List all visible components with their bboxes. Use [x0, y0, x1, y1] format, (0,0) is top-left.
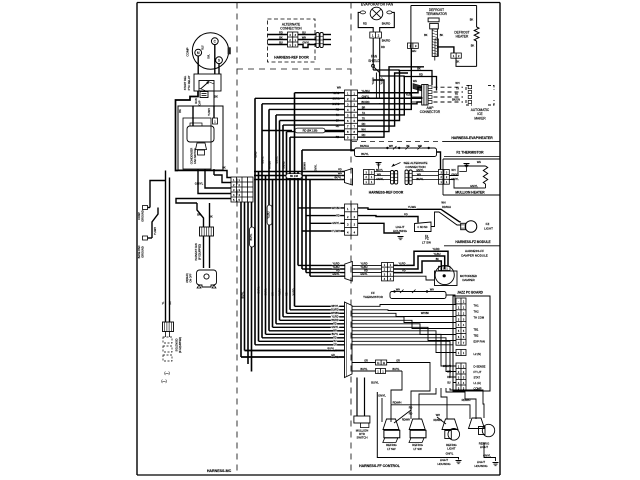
svg-text:TA: TA — [456, 88, 459, 91]
svg-text:YL/WH: YL/WH — [408, 205, 416, 209]
svg-text:RD/WH: RD/WH — [393, 401, 402, 405]
svg-text:BK/WH: BK/WH — [304, 162, 307, 170]
F2 door switch — [415, 201, 461, 238]
see alternate connection note — [392, 161, 428, 169]
svg-text:RD: RD — [402, 270, 406, 273]
svg-text:WH: WH — [361, 127, 365, 131]
damper bundle wires from verticals — [298, 262, 345, 276]
svg-text:GN/YL: GN/YL — [276, 156, 279, 164]
svg-text:HARNESS-FF CONTROL: HARNESS-FF CONTROL — [359, 464, 401, 468]
wires from bundle to housing block — [298, 208, 345, 231]
light housing label + ground — [393, 225, 408, 240]
refrig lt sw unit 1 — [383, 419, 400, 451]
svg-text:SOLENOID: SOLENOID — [176, 338, 179, 351]
mullion heater wiring — [449, 160, 485, 188]
jazz strip left labels — [443, 365, 452, 385]
svg-text:BK: BK — [279, 35, 283, 39]
svg-text:SWITCH: SWITCH — [356, 436, 367, 440]
fan shield — [368, 55, 383, 100]
wire block bottom to F2 rail — [351, 140, 355, 151]
wires right of barrel — [323, 35, 331, 45]
defrost heater resistor — [454, 27, 479, 66]
svg-text:DAMPER: DAMPER — [462, 278, 474, 282]
svg-text:GR: GR — [364, 359, 368, 362]
svg-text:WH: WH — [272, 292, 275, 296]
svg-text:BK: BK — [424, 33, 428, 37]
svg-text:YL/RD: YL/RD — [255, 151, 258, 158]
svg-text:WH: WH — [337, 86, 341, 90]
svg-text:GN/YL: GN/YL — [195, 182, 204, 186]
motorized damper — [435, 265, 478, 285]
svg-text:EVAPORATOR FAN: EVAPORATOR FAN — [361, 3, 394, 7]
svg-text:OVL: OVL — [208, 53, 211, 58]
svg-text:YL/BU: YL/BU — [279, 288, 282, 295]
svg-text:BK: BK — [178, 109, 182, 113]
svg-text:BASE PAN: BASE PAN — [137, 245, 141, 258]
thick wire from condenser box bottom to connector grid — [178, 171, 231, 178]
harness-fz module section line — [422, 237, 500, 258]
damper pin block — [382, 263, 394, 281]
svg-text:COMP: COMP — [186, 48, 190, 57]
ground at harness-ref door row — [376, 162, 382, 164]
labels after barrels — [413, 169, 439, 181]
svg-text:WH: WH — [389, 145, 393, 148]
svg-text:BU: BU — [447, 381, 451, 384]
svg-text:L2 (N): L2 (N) — [474, 352, 482, 356]
damper bundle mid wires — [352, 262, 381, 276]
automatic ice maker label — [471, 108, 490, 120]
alternate connection title — [280, 23, 302, 31]
svg-text:BU/YL: BU/YL — [262, 156, 265, 164]
terminal blob right of compressor — [228, 47, 231, 54]
svg-text:BK 138: BK 138 — [290, 175, 299, 178]
svg-text:HOUSING: HOUSING — [474, 464, 487, 468]
junction dots on F2 rail — [386, 146, 430, 150]
svg-text:BU/YL: BU/YL — [361, 368, 369, 371]
harvest fan wires from grid — [176, 199, 231, 228]
svg-text:BK: BK — [169, 301, 172, 305]
amp connector funnel — [413, 84, 428, 106]
alternate connection wires right — [298, 30, 316, 47]
svg-text:WH: WH — [436, 414, 440, 417]
svg-text:YL/WH: YL/WH — [208, 108, 211, 116]
svg-text:START REL: START REL — [183, 75, 187, 90]
wires from housing block right — [358, 205, 461, 233]
svg-text:BU/YL: BU/YL — [393, 368, 401, 371]
svg-text:GN/WH: GN/WH — [443, 365, 452, 368]
run capacitor — [195, 92, 218, 106]
harness-evap/heater section label — [352, 136, 500, 142]
svg-text:COMP: COMP — [137, 212, 141, 220]
main evap harness connector block 9 rows — [345, 90, 358, 140]
svg-text:WH: WH — [338, 172, 342, 175]
labels after block A — [374, 169, 390, 181]
svg-text:HOUSING: HOUSING — [393, 229, 408, 233]
outer border frame — [137, 3, 500, 476]
svg-text:WH: WH — [377, 173, 381, 176]
svg-text:EXP FAN: EXP FAN — [474, 339, 485, 343]
svg-text:BK: BK — [440, 33, 444, 37]
svg-text:BK: BK — [222, 166, 226, 170]
svg-text:GROUND: GROUND — [141, 210, 145, 222]
svg-text:GN/YL: GN/YL — [446, 451, 454, 455]
svg-text:BK: BK — [214, 95, 218, 99]
wire relay to condenser box (thick) — [176, 91, 199, 171]
jazz pin strip 3 — [456, 363, 466, 391]
svg-text:WH: WH — [447, 370, 451, 373]
evap fan wire loop — [358, 12, 394, 31]
svg-text:WH: WH — [430, 288, 434, 291]
svg-text:BU: BU — [302, 30, 306, 34]
ref door pin block A — [364, 170, 375, 185]
svg-text:BK: BK — [471, 44, 475, 48]
defrost terminator title — [426, 8, 447, 16]
evap fan connector 1-2 — [370, 32, 382, 38]
svg-text:F2 THERMISTOR: F2 THERMISTOR — [456, 150, 484, 154]
evaporator fan motor symbol — [360, 7, 392, 20]
svg-text:RD (BK 138): RD (BK 138) — [303, 129, 318, 133]
svg-text:YL/WH: YL/WH — [154, 227, 157, 235]
dashed harness divider x=351 — [350, 3, 352, 476]
svg-text:BK: BK — [197, 213, 201, 217]
wire F2 rail to mullion connector — [437, 152, 441, 170]
svg-text:WH: WH — [396, 288, 400, 291]
svg-text:FT LIT: FT LIT — [474, 370, 482, 374]
svg-text:WH: WH — [412, 49, 417, 53]
svg-text:HARNESS-FZ MODULE: HARNESS-FZ MODULE — [455, 240, 490, 244]
svg-text:TERMINATOR: TERMINATOR — [426, 12, 447, 16]
solenoid valve dashed symbols — [163, 332, 182, 362]
svg-text:THERMISTOR: THERMISTOR — [363, 295, 384, 299]
FF thermistor label — [363, 291, 384, 299]
svg-text:HARNESS-REF DOOR: HARNESS-REF DOOR — [369, 190, 404, 194]
ref door pin block B — [439, 170, 450, 185]
svg-text:YL/RD: YL/RD — [398, 262, 405, 265]
ref door trapezoid connector — [345, 169, 353, 186]
refrig lt sw unit 2 — [409, 419, 426, 451]
svg-text:BK: BK — [436, 258, 440, 261]
svg-text:HARNESS-MC: HARNESS-MC — [207, 469, 232, 473]
svg-text:GR: GR — [331, 354, 335, 357]
svg-text:TH1: TH1 — [474, 303, 480, 307]
connector grid pair MC (4 cols) — [231, 177, 253, 202]
mullion heater box — [443, 159, 500, 195]
wires to jazz board pins — [352, 305, 456, 383]
main wire bundle verticals — [241, 93, 310, 372]
vertical oval labels in bundle — [250, 205, 272, 247]
svg-text:WH: WH — [455, 82, 459, 85]
svg-text:YL/RD: YL/RD — [360, 262, 367, 265]
svg-text:RD: RD — [419, 72, 423, 76]
condenser fan motor assembly box — [178, 106, 223, 170]
svg-text:TK: TK — [455, 93, 459, 96]
svg-text:HARNESS-EVAP/HEATER: HARNESS-EVAP/HEATER — [451, 136, 493, 140]
jazz strip1 labels — [474, 303, 485, 343]
svg-text:TH2: TH2 — [474, 309, 480, 313]
svg-text:GN/YL: GN/YL — [470, 184, 478, 188]
svg-text:CONNECTION: CONNECTION — [280, 27, 302, 31]
svg-text:LT SW: LT SW — [422, 240, 431, 244]
svg-text:CONNECTOR: CONNECTOR — [420, 110, 441, 114]
svg-text:BK/YL: BK/YL — [334, 176, 342, 179]
svg-text:RD/WH: RD/WH — [442, 205, 451, 209]
svg-text:BK/RD: BK/RD — [382, 39, 391, 43]
svg-text:RD: RD — [363, 22, 367, 26]
svg-text:YL/BK: YL/BK — [406, 94, 413, 97]
wire rows into left grid — [195, 166, 231, 194]
svg-text:BU/YL: BU/YL — [258, 286, 261, 294]
svg-text:BU/YL: BU/YL — [371, 380, 379, 384]
wire compressor pins to relay — [198, 45, 219, 74]
svg-text:RD/WH: RD/WH — [402, 419, 410, 422]
svg-text:RD: RD — [279, 30, 283, 34]
labels right of block B — [451, 169, 459, 181]
svg-text:YL/WH: YL/WH — [332, 230, 340, 233]
svg-text:LT SW: LT SW — [413, 447, 422, 451]
svg-text:WH: WH — [477, 160, 481, 164]
svg-text:WH/BK: WH/BK — [269, 161, 272, 169]
svg-text:GR: GR — [396, 359, 400, 362]
comp ground lugs and wire — [137, 181, 166, 259]
refrig light unit 3 — [442, 419, 460, 451]
svg-text:GN/YL: GN/YL — [332, 273, 340, 276]
svg-text:RUN: RUN — [195, 98, 198, 104]
damper wires nested elbows to motor top — [394, 248, 449, 280]
dashed wires to ice maker — [434, 82, 464, 102]
svg-text:YL/RD: YL/RD — [432, 248, 439, 251]
svg-text:(IF EQUIPPED): (IF EQUIPPED) — [200, 244, 202, 260]
svg-text:GN/YL: GN/YL — [315, 164, 318, 172]
start relay / PTC relay U-REL — [183, 74, 221, 91]
mullion switch drop wire — [357, 378, 380, 417]
svg-text:BK/RD: BK/RD — [382, 22, 391, 26]
svg-text:WH/BK: WH/BK — [421, 312, 430, 315]
inline barrel connector — [316, 33, 319, 48]
arrow glyphs below — [161, 371, 169, 383]
wire BK into box — [178, 106, 214, 126]
svg-text:YL/RD: YL/RD — [293, 288, 296, 295]
svg-text:YL/BU: YL/BU — [434, 253, 441, 256]
svg-text:WH: WH — [417, 173, 421, 176]
twin wire down to MC connector — [162, 171, 172, 323]
FF thermistor loop box — [390, 288, 456, 304]
svg-text:RLY: RLY — [202, 45, 205, 50]
svg-text:BU/YL: BU/YL — [250, 233, 253, 241]
svg-text:MAKER: MAKER — [474, 116, 486, 120]
GR / BU-YL rows through small blocks — [241, 347, 430, 385]
wire labels right of block — [332, 86, 370, 139]
bundle rotated wire labels — [242, 151, 318, 298]
svg-text:BU: BU — [279, 40, 283, 44]
svg-text:GROUND: GROUND — [141, 246, 145, 258]
svg-text:TH COM: TH COM — [474, 315, 485, 319]
alternate connection dashed box — [268, 19, 316, 62]
svg-text:BK: BK — [209, 215, 213, 219]
evap fan leads down — [373, 38, 390, 76]
svg-text:GN/YL: GN/YL — [378, 393, 386, 397]
svg-text:WH: WH — [302, 35, 306, 39]
svg-text:(IF EQUIPPED): (IF EQUIPPED) — [180, 337, 182, 353]
mullion heater ground — [459, 164, 469, 172]
svg-text:YL/RD: YL/RD — [372, 77, 375, 84]
mullion heater resistor — [478, 166, 488, 188]
svg-text:BK/WH: BK/WH — [360, 144, 369, 148]
svg-text:RD: RD — [338, 168, 342, 171]
svg-text:CAP: CAP — [199, 100, 202, 105]
svg-text:GN/YL: GN/YL — [265, 288, 268, 296]
svg-text:WH: WH — [413, 79, 417, 83]
svg-text:HEATER: HEATER — [456, 35, 469, 39]
jazz pin strip 1 — [456, 298, 466, 345]
svg-text:OR: OR — [333, 344, 337, 347]
defrost section box — [411, 6, 477, 44]
svg-text:YL/BU: YL/BU — [268, 211, 271, 218]
svg-text:YL/BU: YL/BU — [333, 266, 340, 269]
svg-text:SHIELD: SHIELD — [368, 59, 380, 63]
bundle top connections from block rows — [255, 93, 355, 150]
ref door barrel connectors — [391, 170, 413, 185]
condenser fan motor body — [187, 118, 218, 164]
svg-text:HARNESS-REF DOOR: HARNESS-REF DOOR — [274, 56, 309, 60]
svg-text:YL/RD: YL/RD — [381, 77, 384, 84]
svg-text:(—): (—) — [164, 371, 169, 375]
svg-text:M: M — [197, 51, 200, 55]
svg-text:STAT: STAT — [474, 375, 481, 379]
svg-text:PTC RELAY: PTC RELAY — [187, 75, 191, 90]
svg-text:RD: RD — [336, 270, 340, 273]
svg-text:RD: RD — [404, 212, 408, 216]
F2 thermistor loop box — [355, 144, 437, 157]
ref door row wires left — [254, 168, 345, 179]
svg-text:4 3 2 1: 4 3 2 1 — [441, 269, 449, 271]
svg-text:L1 (H): L1 (H) — [474, 381, 482, 385]
svg-text:BK/GN: BK/GN — [452, 98, 460, 101]
fan wires route right to amp connector — [373, 66, 436, 104]
svg-text:WH: WH — [441, 201, 445, 205]
jazz strip3 labels — [474, 364, 486, 390]
defrost heater wires to 1-2 connector — [435, 47, 477, 67]
svg-text:(—): (—) — [161, 379, 166, 383]
wire relay right leg down — [213, 91, 215, 106]
svg-text:BK: BK — [470, 18, 474, 22]
svg-text:GN/YL: GN/YL — [302, 41, 310, 44]
svg-text:RD: RD — [336, 215, 340, 218]
svg-text:RD: RD — [381, 45, 385, 49]
amp connector pins — [412, 86, 432, 104]
svg-text:RD: RD — [362, 133, 366, 137]
svg-text:RD: RD — [362, 122, 366, 126]
svg-text:ON OFF: ON OFF — [190, 273, 193, 283]
svg-text:D-SENSE: D-SENSE — [474, 364, 486, 368]
svg-text:LIGHT: LIGHT — [447, 447, 456, 451]
svg-text:YL/RD: YL/RD — [332, 262, 339, 265]
svg-text:LT SW: LT SW — [387, 447, 396, 451]
svg-text:WH: WH — [451, 169, 455, 172]
svg-text:YL/BU: YL/BU — [361, 266, 368, 269]
refrig light unit 4 — [469, 418, 495, 449]
svg-text:WH/BK: WH/BK — [332, 207, 341, 210]
FF bundle bottom bends to thermistor connector — [241, 305, 345, 359]
svg-text:2X(AUX): 2X(AUX) — [186, 273, 189, 283]
svg-text:C NO NC: C NO NC — [417, 226, 427, 229]
light housing grounds bottom — [437, 451, 461, 465]
labels left of housing block — [332, 207, 341, 233]
harvest fan connector (hatched) — [200, 227, 214, 236]
wires from jazz board down to lamps — [391, 375, 484, 418]
ice maker dashed outline — [466, 85, 494, 105]
jazz pc board outline — [453, 296, 490, 391]
harvest fan cable — [195, 236, 210, 268]
svg-text:BU/YL: BU/YL — [328, 347, 336, 350]
bottom distribution rails — [377, 392, 476, 460]
F2 thermistor section label — [444, 150, 500, 156]
svg-text:RD: RD — [286, 292, 289, 296]
FF thermistor trapezoid connector — [345, 302, 353, 378]
svg-text:BU/YL: BU/YL — [242, 291, 245, 299]
svg-text:GN/YL: GN/YL — [360, 273, 368, 276]
alternate connection wires left — [268, 30, 288, 44]
compressor motor — [186, 33, 229, 69]
harvest fan keyhole plug — [186, 270, 217, 288]
light housing connector block — [345, 204, 358, 235]
FZ light bulb — [461, 221, 493, 233]
damper trapezoid connector — [345, 262, 353, 282]
mullion switch connector — [354, 416, 370, 440]
bundle mid connections - oval tag — [286, 174, 302, 179]
svg-text:HOUSING: HOUSING — [437, 462, 450, 466]
svg-text:RD: RD — [364, 270, 368, 273]
dashed harness divider x=237 — [236, 3, 238, 476]
svg-text:FAN MOTOR: FAN MOTOR — [193, 148, 197, 163]
svg-text:RD/WH: RD/WH — [433, 419, 441, 422]
svg-text:MULLION HEATER: MULLION HEATER — [455, 190, 485, 194]
svg-text:LIGHT: LIGHT — [484, 226, 493, 230]
svg-text:BK/YL: BK/YL — [361, 152, 369, 156]
ladder wires from block up to defrost/fan section — [358, 67, 425, 137]
svg-text:DAMPER MODULE: DAMPER MODULE — [461, 253, 488, 257]
svg-text:JAZZ PC BOARD: JAZZ PC BOARD — [457, 291, 484, 295]
amp connector label — [420, 106, 441, 114]
MC harness connector block (hatched) — [163, 322, 174, 332]
svg-text:CONDENSER: CONDENSER — [190, 148, 194, 165]
svg-text:TB2: TB2 — [474, 333, 479, 337]
svg-text:RD: RD — [447, 376, 451, 379]
defrost terminator body — [424, 18, 473, 57]
svg-text:HARVEST FAN: HARVEST FAN — [195, 243, 198, 260]
svg-text:TB1: TB1 — [474, 327, 479, 331]
defrost 1-3 connector — [408, 43, 419, 83]
jazz pin strip 2 — [456, 350, 466, 356]
alternate connection pin block — [288, 32, 298, 47]
svg-text:GN/YL: GN/YL — [332, 222, 340, 225]
svg-text:BK/RD: BK/RD — [283, 161, 286, 169]
dashed divider y=69 — [237, 68, 351, 70]
svg-text:S: S — [218, 59, 220, 63]
